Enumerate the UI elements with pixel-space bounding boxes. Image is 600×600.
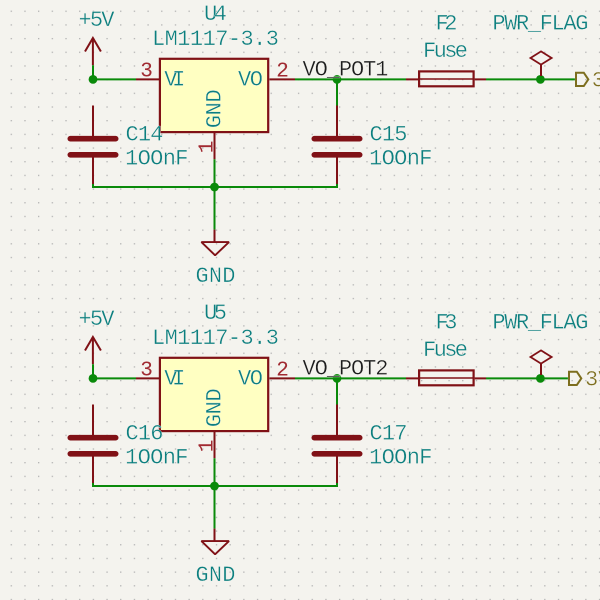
power symbol +5V (U4 input) [79, 8, 116, 65]
wire fuse to PWR_FLAG node [486, 78, 540, 80]
svg-text:LM1117-3.3: LM1117-3.3 [152, 27, 279, 52]
junction at PWR_FLAG node [536, 374, 545, 383]
svg-text:C16: C16 [126, 422, 164, 447]
junction at ground node [210, 183, 219, 192]
capacitor C17 100nF (output) [314, 405, 359, 485]
svg-text:VO_POT2: VO_POT2 [303, 357, 389, 382]
pin 3 (VI) of U4 [136, 60, 160, 83]
pin 3 (VI) of U5 [136, 359, 160, 382]
capacitor C15 100nF (output) [314, 106, 359, 186]
wire to hierarchical label 3V3_POT2 [540, 377, 568, 379]
svg-text:VI: VI [164, 367, 185, 392]
svg-text:GND: GND [196, 563, 236, 588]
wire ground rail C14-C15 [93, 184, 337, 187]
junction at +5V / C14 node [89, 75, 98, 84]
svg-text:VO: VO [238, 367, 263, 392]
svg-text:1OOnF: 1OOnF [125, 446, 189, 471]
junction at net VO_POT1 [333, 75, 342, 84]
wire to hierarchical label 3V3_POT1 [540, 78, 575, 80]
svg-text:C15: C15 [370, 123, 408, 148]
svg-text:2: 2 [276, 360, 289, 383]
wire +5V rail to VI pin [93, 65, 136, 79]
ground symbol GND [196, 230, 236, 289]
regulator U5 LM1117-3.3 body [160, 358, 268, 431]
power flag PWR_FLAG [492, 310, 588, 375]
capacitor C14 100nF (input) [70, 106, 115, 186]
svg-text:3V3_POT1: 3V3_POT1 [592, 69, 600, 94]
hierarchical label 3V3_POT2 [569, 368, 600, 393]
svg-text:Fuse: Fuse [423, 39, 468, 64]
wire VO to fuse F2 [295, 78, 406, 80]
svg-text:C14: C14 [126, 123, 164, 148]
wire VO to fuse F3 [295, 377, 406, 379]
svg-text:1OOnF: 1OOnF [369, 446, 433, 471]
svg-text:3V3_POT2: 3V3_POT2 [585, 368, 600, 393]
power symbol +5V (U5 input) [79, 307, 116, 364]
wire +5V rail to VI pin [93, 364, 136, 378]
svg-text:LM1117-3.3: LM1117-3.3 [152, 326, 279, 351]
junction at +5V / C16 node [89, 374, 98, 383]
svg-text:1: 1 [196, 141, 219, 154]
svg-text:Fuse: Fuse [423, 338, 468, 363]
svg-text:GND: GND [202, 388, 227, 427]
svg-text:2: 2 [276, 61, 289, 84]
pin 1 (GND) of U5 [196, 432, 219, 459]
svg-text:F2: F2 [436, 11, 458, 36]
svg-text:U5: U5 [204, 301, 227, 326]
svg-text:1OOnF: 1OOnF [369, 147, 433, 172]
junction at ground node [210, 482, 219, 491]
wire ground rail C16-C17 [93, 483, 337, 486]
svg-text:+5V: +5V [79, 8, 116, 33]
svg-text:3: 3 [140, 359, 153, 382]
svg-text:C17: C17 [370, 422, 408, 447]
hierarchical label 3V3_POT1 [576, 69, 600, 94]
svg-text:PWR_FLAG: PWR_FLAG [492, 310, 588, 335]
svg-text:PWR_FLAG: PWR_FLAG [492, 11, 588, 36]
wire fuse to PWR_FLAG node [486, 377, 540, 379]
svg-text:1: 1 [196, 440, 219, 453]
svg-text:3: 3 [140, 60, 153, 83]
svg-text:GND: GND [202, 89, 227, 128]
junction at PWR_FLAG node [536, 75, 545, 84]
wire VO_POT2 down to C17 [336, 378, 338, 404]
svg-text:+5V: +5V [79, 307, 116, 332]
wire ground rail to GND symbol [214, 187, 216, 230]
capacitor C16 100nF (input) [70, 405, 115, 485]
svg-text:U4: U4 [204, 2, 227, 27]
svg-text:GND: GND [196, 264, 236, 289]
svg-text:VO: VO [238, 68, 263, 93]
wire ground rail to GND symbol [214, 486, 216, 529]
svg-text:1OOnF: 1OOnF [125, 147, 189, 172]
junction at net VO_POT2 [333, 374, 342, 383]
svg-text:VI: VI [164, 68, 185, 93]
wire GND pin to ground rail [214, 159, 216, 187]
fuse F2 [406, 71, 486, 86]
pin 2 (VO) of U5 [270, 360, 296, 383]
svg-text:VO_POT1: VO_POT1 [303, 58, 389, 83]
fuse F3 [406, 370, 486, 385]
regulator U4 LM1117-3.3 body [160, 59, 268, 132]
power flag PWR_FLAG [492, 11, 588, 76]
wire VO_POT1 down to C15 [336, 79, 338, 105]
pin 1 (GND) of U4 [196, 133, 219, 160]
wire GND pin to ground rail [214, 458, 216, 486]
svg-text:F3: F3 [436, 310, 458, 335]
ground symbol GND [196, 529, 236, 588]
pin 2 (VO) of U4 [270, 61, 296, 84]
